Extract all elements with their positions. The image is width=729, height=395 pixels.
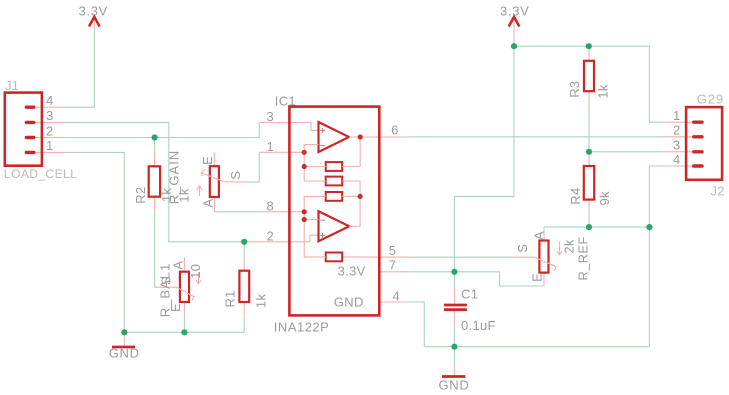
svg-text:3: 3 [673,138,681,153]
IC1 pin 6 [349,136,409,138]
svg-text:R_BAL1: R_BAL1 [158,263,173,317]
svg-text:E: E [200,156,215,165]
node GND rail / C1 junction [451,344,457,350]
svg-text:3: 3 [46,108,54,123]
IC1 pin 4 [379,301,408,303]
resistor R2 [133,152,174,212]
IC1 internal junction dots [302,150,307,155]
svg-text:GND: GND [109,345,140,360]
wire GND rail right [424,346,649,348]
svg-text:S: S [228,171,243,180]
svg-text:4: 4 [673,152,681,167]
ground GND right [439,347,470,393]
node IC1 pin 2 / R1 junction [241,239,247,245]
svg-text:−: − [320,141,326,152]
IC1 internal op-amp A [319,122,350,152]
node ref rail / J2 pin 4 junction [646,224,652,230]
svg-text:3.3V: 3.3V [338,263,366,278]
resistor R4 [568,152,612,212]
svg-text:−: − [320,216,326,227]
wire IC1 pin 5 to R_REF S [409,256,515,258]
svg-text:C1: C1 [461,287,478,302]
wire R1 bottom drop [243,317,245,333]
wire R_BAL1 E drop [183,317,185,332]
connector J2 G29 [665,92,725,199]
IC1 pin 7 [379,271,408,273]
node R4 / ref rail junction [586,224,592,230]
wire R3 bottom to J2 pin 3 [589,106,665,152]
svg-text:S: S [515,244,530,253]
svg-text:GND: GND [334,294,364,309]
wire IC1 pin 6 to J2 pin 2 [409,136,665,138]
supply 3.3V right [500,4,530,47]
capacitor C1 [444,287,496,333]
node R3 top junction [586,43,592,49]
wire 3.3V right rail to J2 pin 1 [514,46,665,122]
svg-text:J2: J2 [711,184,725,199]
svg-text:J1: J1 [5,78,19,93]
potentiometer R_REF [514,231,590,286]
IC1 pin 2 [244,235,318,242]
wire R_REF A up [543,227,545,233]
wire IC1 pin 2 node down to R1 [243,242,245,258]
wire 3.3V left to J1 pin 4 [63,31,94,108]
ground GND left [109,332,140,360]
svg-text:A: A [200,198,215,207]
svg-text:+: + [320,126,326,137]
IC1 pin 8 [259,211,304,213]
wire GND rail left [124,331,244,333]
node GND rail / R_BAL1 E junction [181,329,187,335]
svg-text:10: 10 [188,264,203,279]
svg-text:2: 2 [267,228,275,243]
node J1 pin 2 / R2 junction [152,134,158,140]
svg-text:1: 1 [46,138,54,153]
svg-text:4: 4 [46,93,54,108]
node R3 / R4 / J2 pin 3 junction [586,149,592,155]
svg-text:7: 7 [389,258,397,273]
svg-text:5: 5 [389,243,397,258]
resistor R1 [222,258,268,317]
svg-text:1k: 1k [254,294,269,309]
svg-text:1: 1 [673,108,681,123]
wire J1 pin 3 to IC1 pin 2 node [63,122,244,241]
wire R_GAIN A to IC1 pin 8 [214,211,259,213]
svg-text:4: 4 [393,288,401,303]
svg-text:GND: GND [439,377,470,392]
svg-text:2: 2 [46,123,54,138]
IC1 internal wiring [304,145,318,153]
svg-text:1k: 1k [596,84,611,99]
IC1 body outline [289,107,379,316]
resistor R3 [567,46,611,106]
wire R2 top tap [154,138,156,153]
wire J2 pin 4 drop [649,166,664,227]
IC1 pin 5 [342,256,408,258]
potentiometer R_BAL1 [155,257,204,317]
svg-text:E: E [529,273,544,282]
wire C1 top [453,272,455,289]
IC1 internal resistor network [326,162,343,171]
svg-text:8: 8 [267,198,275,213]
wire R4 bottom to ref rail [588,212,590,227]
supply 3.3V left [79,4,109,31]
wire J1 pin 1 to GND rail [63,152,124,332]
wire R2 bottom to R_BAL1 wiper [154,212,156,288]
potentiometer R_GAIN [166,150,244,212]
svg-text:INA122P: INA122P [274,320,330,335]
svg-text:R4: R4 [568,187,583,204]
wire J1 pin 2 to IC1 pin 3 [63,123,259,138]
wire ref rail to GND rail [648,227,650,347]
svg-text:LOAD_CELL: LOAD_CELL [4,167,77,181]
wire IC1 pin 4 to GND rail [409,302,425,347]
IC1 pin 3 [259,123,318,131]
svg-text:R_REF: R_REF [575,236,590,280]
svg-text:9k: 9k [597,191,612,206]
svg-text:R2: R2 [133,187,148,204]
wire R_GAIN S to IC1 pin 1 [244,152,259,182]
svg-text:G29: G29 [697,92,724,107]
svg-text:A: A [531,231,546,240]
wire IC1 pin 7 to R_REF E [409,272,545,286]
IC1 INA122P [244,93,408,334]
IC1 internal op-amp B [319,211,350,241]
node 3.3V / C1 / IC1 pin 7 junction [451,269,457,275]
node GND rail / J1 pin 1 junction [121,329,127,335]
svg-text:3: 3 [267,109,275,124]
svg-text:R1: R1 [222,290,237,307]
svg-text:1: 1 [267,139,275,154]
wire C1 bottom [453,326,455,347]
svg-text:+: + [320,231,326,242]
svg-text:1k: 1k [177,188,192,203]
node 3.3V right rail junction [511,43,517,49]
svg-text:R3: R3 [567,81,582,98]
svg-text:A: A [170,261,185,270]
wire ref rail [544,226,649,228]
svg-text:6: 6 [391,123,399,138]
svg-text:0.1uF: 0.1uF [461,318,496,333]
IC1 pin 1 [259,151,304,153]
connector J1 LOAD_CELL [4,78,77,181]
svg-text:2: 2 [673,123,681,138]
wire 3.3V right down to pin 7 node [454,46,514,272]
